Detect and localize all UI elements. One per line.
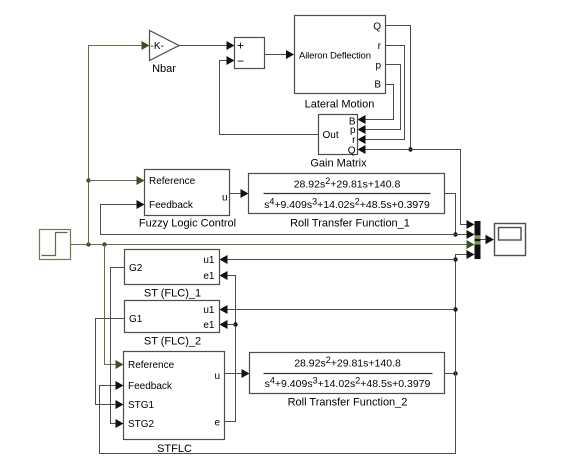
step source block Step [40,230,71,260]
svg-text:ST (FLC)_2: ST (FLC)_2 [144,336,201,348]
wire TF1 node to mux input 2 [456,234,468,236]
wire green to FLC Reference [89,180,139,182]
node e junction [233,322,237,326]
arrowhead into STFLC STG2 [116,419,124,428]
svg-text:G1: G1 [129,314,143,325]
svg-text:Roll Transfer Function_1: Roll Transfer Function_1 [290,218,410,230]
arrowhead into STFLC Reference [116,360,124,369]
wire STFLC u output to Roll Transfer Function_2 [225,373,244,375]
wire STFLC e output up to ST (FLC)_1 e1 input [225,276,236,422]
svg-text:Gain Matrix: Gain Matrix [310,158,367,170]
wire FLC u output to Roll Transfer Function_1 [230,193,243,195]
wire TF2 bus: mux input 4, bottom loop, STFLC Feedback [100,255,468,454]
svg-text:Fuzzy Logic Control: Fuzzy Logic Control [139,218,236,230]
gain block Nbar [150,31,180,76]
arrowhead into ST (FLC)_1 u1 [220,255,228,264]
wire ST (FLC)_1 G2 output to STFLC STG2 input [111,268,125,424]
wire green up to Nbar input [89,46,142,245]
wire ST (FLC)_2 G1 output to STFLC STG1 input [96,319,125,405]
svg-text:Q: Q [373,22,381,33]
junction green to STFLC Reference branch [102,242,106,246]
arrowhead into FLC Feedback [137,200,145,209]
arrowhead into STFLC Feedback [116,381,124,390]
arrowhead into FLC Reference [137,176,145,185]
svg-text:STG2: STG2 [128,419,155,430]
svg-text:Reference: Reference [128,360,175,371]
arrowhead into Gain Matrix Q [358,145,366,154]
svg-text:Feedback: Feedback [128,381,173,392]
svg-text:p: p [375,61,381,72]
arrowhead into ST (FLC)_2 u1 [220,305,228,314]
svg-text:Nbar: Nbar [152,63,176,75]
wire Lateral Motion B output to Gain Matrix B input [366,85,394,120]
subsystem block STFLC [124,352,225,456]
wire Gain Matrix Out to sum minus [220,61,319,135]
svg-text:-K-: -K- [151,41,164,52]
wire bus to ST (FLC)_2 u1 input [227,309,456,311]
svg-text:s4+9.409s3+14.02s2+48.5s+0.397: s4+9.409s3+14.02s2+48.5s+0.3979 [265,376,431,391]
wire sum output to Lateral Motion [265,54,288,56]
svg-text:s4+9.409s3+14.02s2+48.5s+0.397: s4+9.409s3+14.02s2+48.5s+0.3979 [264,197,430,212]
svg-text:Out: Out [323,130,339,141]
svg-text:−: − [237,54,244,68]
svg-text:u1: u1 [203,255,215,266]
arrowhead into mux input 3 (green) [467,240,475,249]
node u1_2 junction [453,307,457,311]
svg-text:Roll Transfer Function_2: Roll Transfer Function_2 [288,397,408,409]
wire mux output to scope [481,239,487,241]
wire TF1 node back to FLC Feedback [101,205,456,235]
node u1_1 junction [453,257,457,261]
mux block [475,221,481,259]
arrowhead into Lateral Motion [286,50,294,59]
wire e junction to ST (FLC)_2 e1 input [227,324,236,326]
arrowhead into Gain Matrix p [358,125,366,134]
wire step output to mux input 3 (green) [71,244,467,246]
arrowhead into mux input 1 [467,220,475,229]
wire green down to STFLC Reference [105,245,118,365]
svg-text:+: + [237,39,244,53]
scope block Scope [495,224,526,256]
svg-text:Reference: Reference [149,176,196,187]
svg-text:Aileron Deflection: Aileron Deflection [299,51,371,62]
wire Nbar output to sum [179,45,228,47]
arrowhead into sum plus [227,41,235,50]
arrowhead into Roll Transfer Function_1 [241,189,249,198]
svg-text:Feedback: Feedback [149,200,194,211]
junction green to FLC Reference [86,178,90,182]
svg-text:Lateral Motion: Lateral Motion [305,99,375,111]
wire Roll Transfer Function_1 output down to node TF1 [445,194,456,235]
arrowhead into Nbar [142,41,150,50]
svg-text:e1: e1 [203,271,215,282]
arrowhead into Gain Matrix r [358,135,366,144]
node Q junction [408,147,412,151]
transfer function block Roll Transfer Function_2 [250,353,445,409]
wire bus to ST (FLC)_1 u1 input [227,259,456,261]
arrowhead into ST (FLC)_1 e1 [220,271,228,280]
transfer function block Roll Transfer Function_1 [249,174,445,230]
wire Lateral Motion Q output down to node Q [386,26,411,150]
arrowhead into STFLC STG1 [116,400,124,409]
junction green to Nbar branch [86,242,90,246]
node TF1 junction [453,232,457,236]
wire Roll Transfer Function_2 output to node TF2 [445,373,456,375]
svg-text:28.92s2+29.81s+140.8: 28.92s2+29.81s+140.8 [294,355,401,370]
svg-text:u: u [214,371,220,382]
wire Q node to Gain Matrix Q input [366,149,411,151]
arrowhead into ST (FLC)_2 e1 [220,320,228,329]
gain matrix block Gain Matrix (flipped) [310,115,367,170]
node TF2 junction [453,371,457,375]
subsystem block ST (FLC)_2 (flipped) [125,301,220,348]
wire Lateral Motion r output to Gain Matrix r input [366,46,405,140]
svg-text:STG1: STG1 [128,400,155,411]
svg-text:Q: Q [348,146,356,157]
arrowhead into Gain Matrix B [358,115,366,124]
svg-text:G2: G2 [129,263,143,274]
arrowhead into mux input 4 [467,250,475,259]
svg-text:u: u [222,193,228,204]
sum block [235,38,265,69]
arrowhead into mux input 2 [467,230,475,239]
subsystem block Fuzzy Logic Control [139,170,236,230]
arrowhead into scope [486,235,495,245]
arrowhead into sum minus [227,56,235,65]
subsystem block Lateral Motion [295,16,386,111]
subsystem block ST (FLC)_1 (flipped) [125,250,220,300]
svg-text:B: B [374,80,381,91]
arrowhead into Roll Transfer Function_2 [242,369,250,378]
wire Lateral Motion p output to Gain Matrix p input [366,65,401,130]
svg-text:e1: e1 [203,320,215,331]
svg-text:ST (FLC)_1: ST (FLC)_1 [144,288,201,300]
svg-text:28.92s2+29.81s+140.8: 28.92s2+29.81s+140.8 [294,176,401,191]
svg-text:u1: u1 [203,305,215,316]
svg-text:e: e [214,418,220,429]
wire Q node to mux input 1 [411,150,468,225]
